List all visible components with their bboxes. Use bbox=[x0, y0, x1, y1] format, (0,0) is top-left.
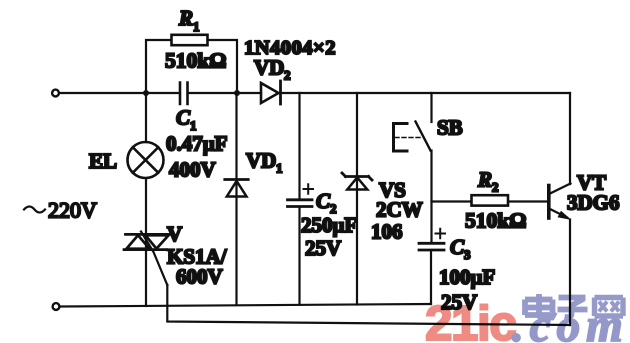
label VS bbox=[379, 178, 406, 202]
label C1 voltage 400V bbox=[169, 158, 216, 182]
label AC source ~220V bbox=[24, 198, 97, 223]
label VT bbox=[577, 171, 606, 195]
svg-text:C: C bbox=[176, 106, 191, 130]
label 2CW bbox=[376, 198, 423, 222]
label 106 bbox=[371, 220, 403, 244]
svg-text:100μF: 100μF bbox=[439, 265, 495, 289]
wire: top rail VD2 to right corner bbox=[282, 92, 570, 94]
svg-text:V: V bbox=[167, 222, 182, 246]
label R1 value 510kOhm bbox=[165, 49, 226, 73]
watermark bbox=[425, 294, 629, 343]
label R2 bbox=[477, 168, 499, 195]
zener diode VS bbox=[342, 93, 372, 305]
svg-text:3: 3 bbox=[464, 247, 471, 262]
label EL bbox=[89, 149, 117, 173]
label R2 value 510kOhm bbox=[465, 209, 526, 233]
wire: EL branch down bbox=[145, 93, 147, 142]
svg-text:3DG6: 3DG6 bbox=[567, 191, 620, 215]
watermark glyph wang bbox=[595, 298, 624, 317]
label C3 voltage 25V bbox=[441, 290, 477, 314]
capacitor C1 bbox=[180, 83, 188, 105]
resistor R2 bbox=[472, 195, 549, 205]
svg-text:2: 2 bbox=[492, 180, 499, 195]
label C2 value 250uF bbox=[301, 213, 357, 237]
diode VD1 bbox=[225, 93, 248, 305]
svg-text:0.47μF: 0.47μF bbox=[166, 132, 227, 156]
svg-text:1: 1 bbox=[276, 161, 283, 176]
label KS1A/ bbox=[167, 245, 228, 269]
transistor VT bbox=[549, 184, 572, 221]
svg-text:25V: 25V bbox=[305, 236, 341, 260]
resistor R1 bbox=[146, 35, 237, 92]
label C1 value 0.47uF bbox=[166, 132, 227, 156]
label C2 bbox=[316, 189, 337, 216]
svg-text:2CW: 2CW bbox=[376, 198, 423, 222]
label V bbox=[167, 222, 182, 246]
switch SB bbox=[394, 93, 432, 243]
lamp EL bbox=[128, 142, 164, 178]
svg-text:220V: 220V bbox=[48, 198, 97, 223]
capacitor C3 bbox=[419, 229, 445, 304]
capacitor C2 bbox=[288, 93, 314, 305]
label 3DG6 bbox=[567, 191, 620, 215]
node: junction dot at EL/R1 branch bbox=[143, 90, 149, 96]
wire: lamp to triac bbox=[145, 179, 147, 235]
svg-text:510kΩ: 510kΩ bbox=[165, 49, 226, 73]
svg-text:1: 1 bbox=[193, 19, 200, 34]
svg-text:21ic: 21ic bbox=[425, 296, 516, 343]
node: AC input top terminal bbox=[52, 90, 59, 97]
wire: triac gate diagonal bbox=[141, 232, 167, 286]
wire: bottom rail bbox=[60, 304, 431, 307]
wire: VT emitter down bbox=[569, 220, 571, 326]
label C2 voltage 25V bbox=[305, 236, 341, 260]
label VD1 bbox=[246, 149, 283, 176]
label C3 value 100uF bbox=[439, 265, 495, 289]
svg-text:VD: VD bbox=[254, 56, 284, 80]
svg-text:250μF: 250μF bbox=[301, 213, 357, 237]
label C3 bbox=[450, 235, 471, 262]
svg-text:510kΩ: 510kΩ bbox=[465, 209, 526, 233]
wire: triac to bottom rail bbox=[145, 251, 147, 307]
svg-text:R: R bbox=[477, 168, 492, 192]
node: AC input bottom terminal bbox=[53, 303, 60, 310]
label 1N4004x2 bbox=[244, 37, 336, 59]
diode VD2 bbox=[261, 81, 281, 104]
svg-text:106: 106 bbox=[371, 220, 403, 244]
wire: gate-emitter lower rail bbox=[167, 285, 570, 325]
wire: top rail C1 to VD2 bbox=[189, 92, 262, 94]
svg-text:VD: VD bbox=[246, 149, 276, 173]
label VD2 bbox=[254, 56, 291, 83]
svg-text:C: C bbox=[316, 189, 331, 213]
triac V bbox=[124, 234, 169, 250]
label 600V bbox=[176, 265, 223, 289]
svg-text:EL: EL bbox=[89, 149, 117, 173]
watermark glyph zi bbox=[558, 298, 588, 318]
wire: right drop to VT collector bbox=[569, 93, 571, 184]
svg-text:400V: 400V bbox=[169, 158, 216, 182]
svg-text:SB: SB bbox=[437, 116, 463, 140]
svg-text:2: 2 bbox=[284, 68, 291, 83]
svg-text:C: C bbox=[450, 235, 465, 259]
node: junction dot at R1 right / VD1 branch bbox=[234, 90, 240, 96]
wire: R2 wire from SB/C3 node bbox=[432, 200, 472, 202]
label SB bbox=[437, 116, 463, 140]
label R1 bbox=[178, 6, 200, 34]
svg-text:R: R bbox=[178, 6, 193, 30]
label C1 bbox=[176, 106, 197, 134]
watermark glyph dian bbox=[525, 294, 555, 318]
svg-text:600V: 600V bbox=[176, 265, 223, 289]
wire: top rail terminal to C1 bbox=[60, 92, 180, 94]
